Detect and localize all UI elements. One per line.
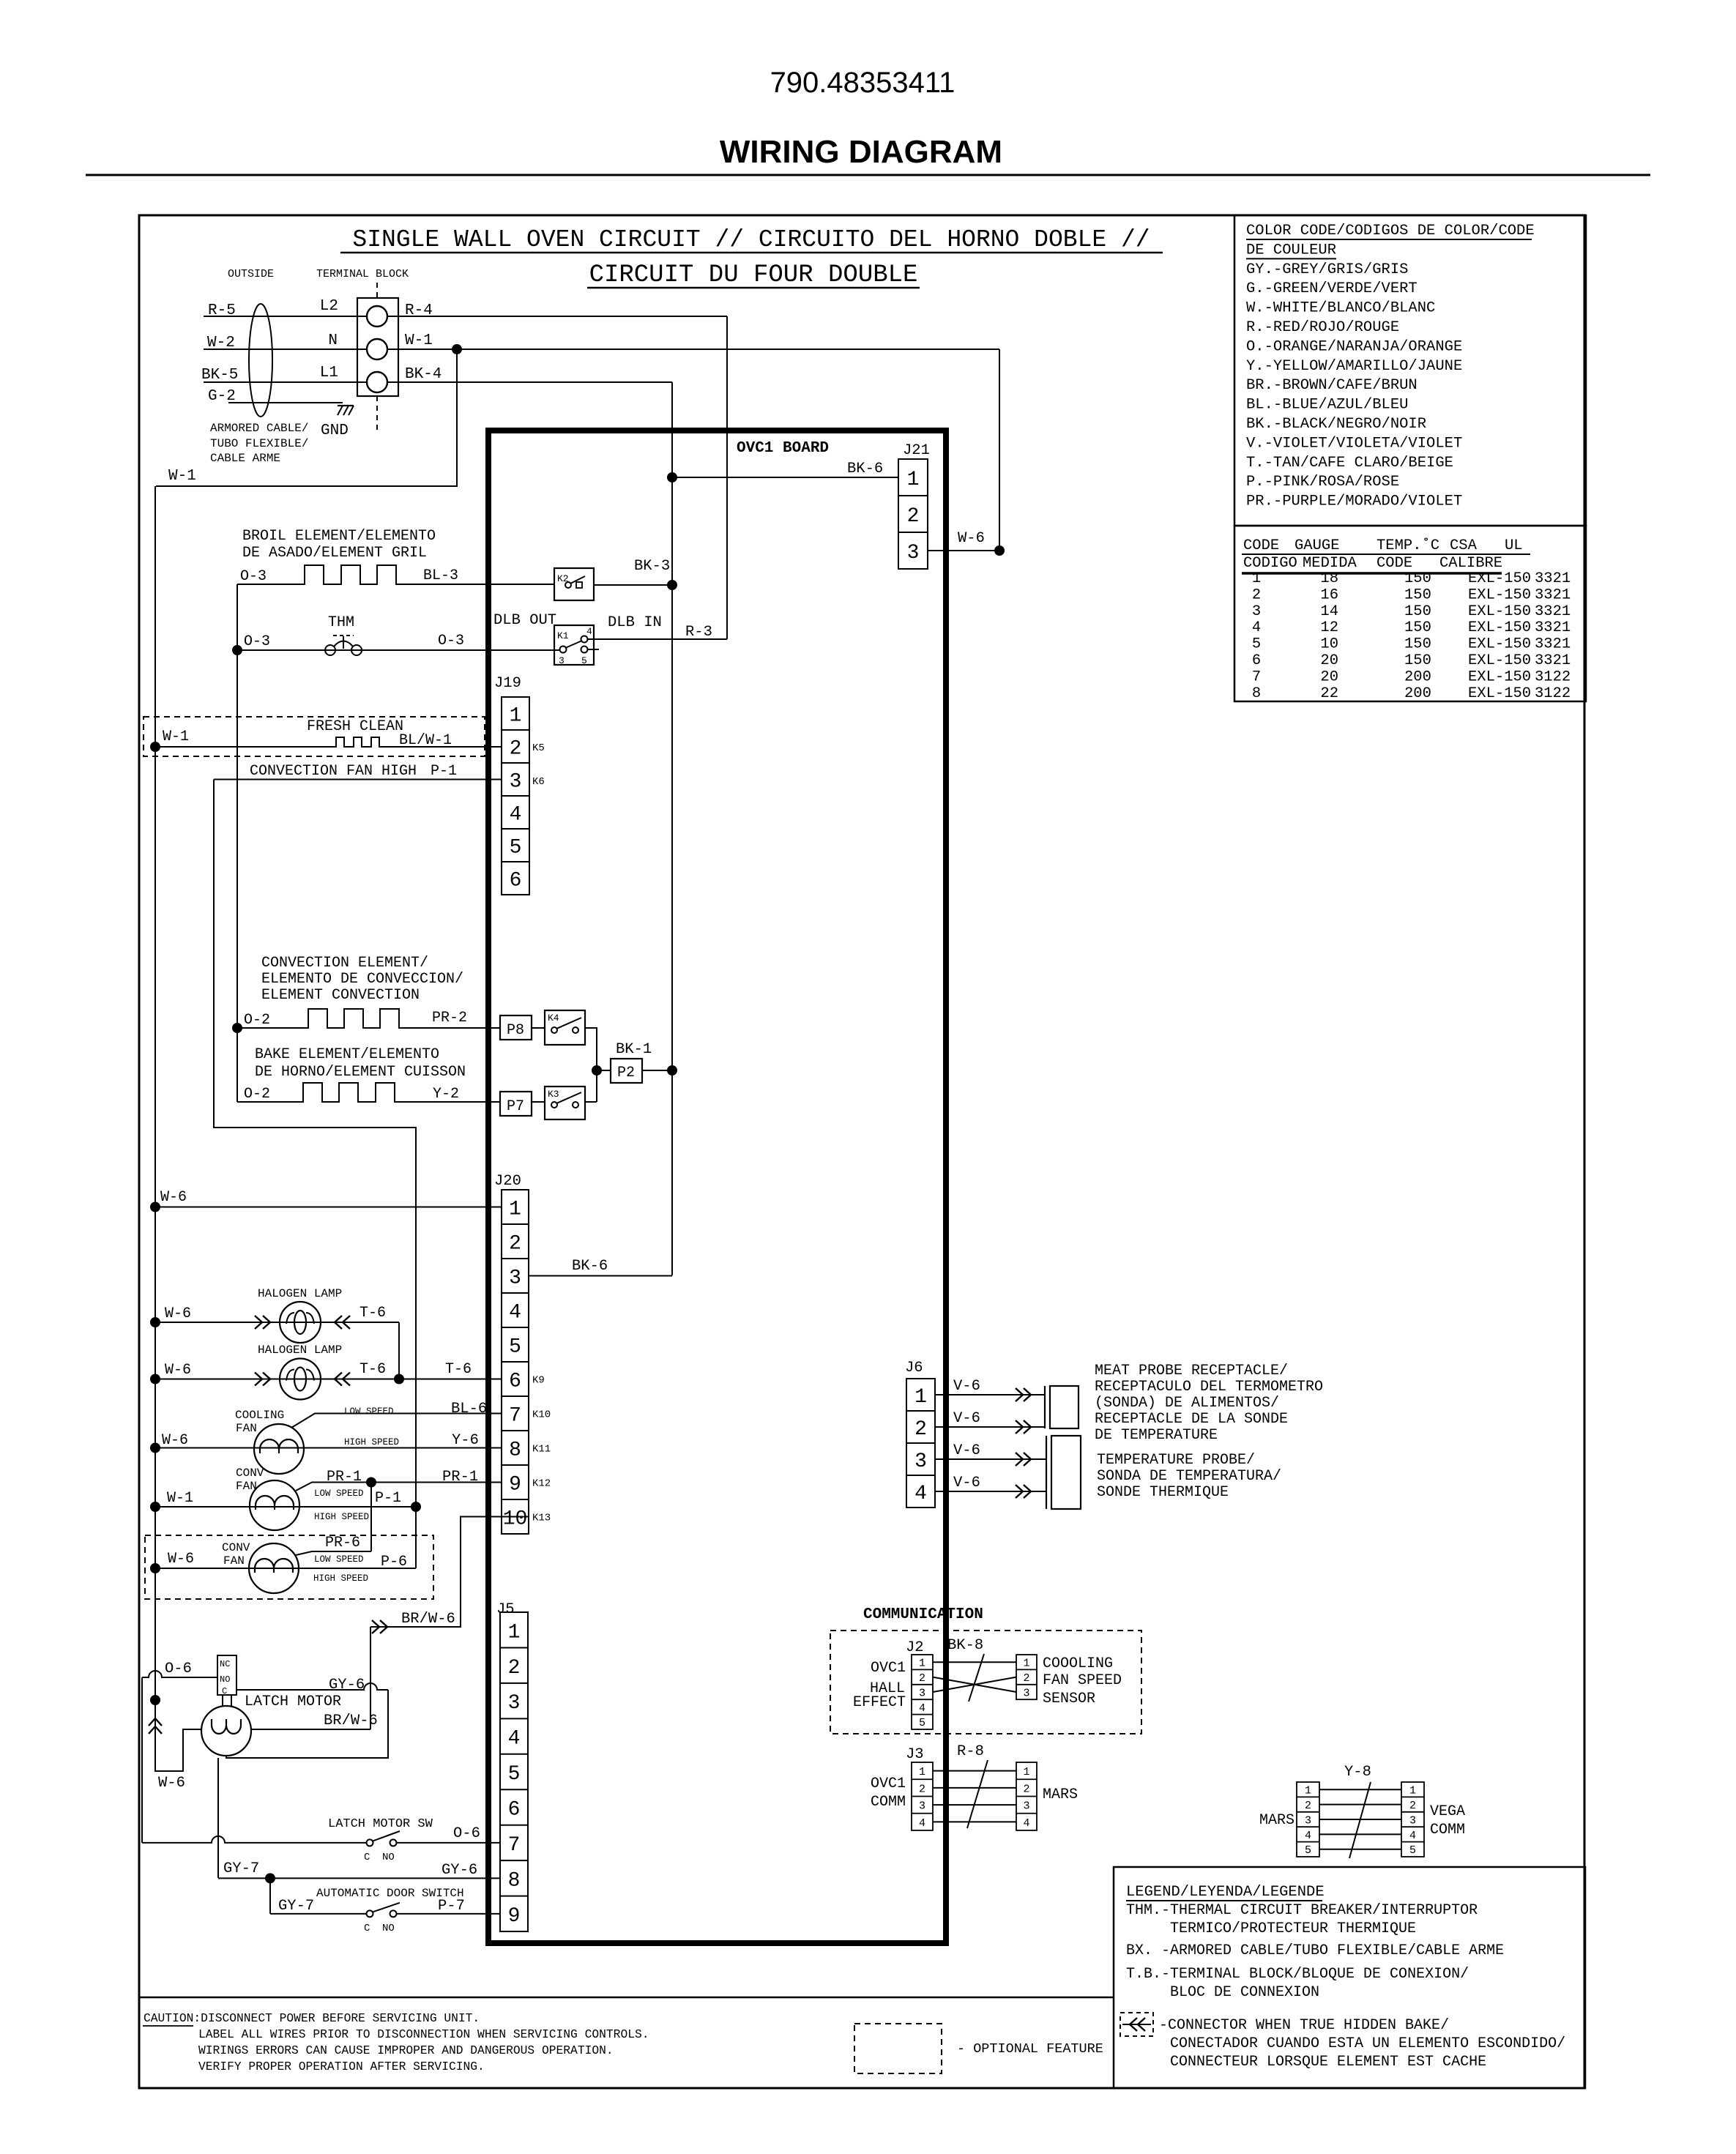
- svg-text:EXL-150: EXL-150: [1468, 685, 1531, 702]
- svg-text:3: 3: [914, 1450, 927, 1473]
- svg-text:EXL-150: EXL-150: [1468, 636, 1531, 653]
- svg-text:18: 18: [1320, 570, 1338, 587]
- svg-text:2: 2: [509, 1233, 521, 1256]
- svg-text:5: 5: [919, 1717, 925, 1729]
- svg-text:22: 22: [1320, 685, 1338, 702]
- svg-text:GY-7: GY-7: [278, 1898, 314, 1915]
- svg-text:2: 2: [508, 1657, 521, 1680]
- svg-text:Y-8: Y-8: [1344, 1764, 1371, 1781]
- svg-text:BL-3: BL-3: [423, 567, 458, 584]
- svg-text:W-6: W-6: [162, 1432, 188, 1449]
- svg-text:OUTSIDE: OUTSIDE: [228, 268, 274, 280]
- svg-text:P-6: P-6: [381, 1554, 407, 1570]
- svg-text:3: 3: [1023, 1800, 1029, 1813]
- svg-text:PR-6: PR-6: [325, 1535, 360, 1551]
- svg-text:9: 9: [508, 1905, 521, 1928]
- svg-text:J6: J6: [905, 1360, 923, 1376]
- svg-text:3122: 3122: [1535, 668, 1571, 685]
- svg-text:W-6: W-6: [165, 1305, 191, 1322]
- svg-text:CSA: CSA: [1450, 537, 1478, 554]
- svg-text:LOW SPEED: LOW SPEED: [314, 1554, 364, 1565]
- svg-text:2: 2: [1409, 1800, 1416, 1812]
- svg-text:GND: GND: [321, 422, 349, 439]
- svg-text:CAUTION:DISCONNECT POWER BEFOR: CAUTION:DISCONNECT POWER BEFORE SERVICIN…: [144, 2011, 480, 2025]
- svg-text:4: 4: [919, 1817, 925, 1830]
- svg-text:(SONDA) DE ALIMENTOS/: (SONDA) DE ALIMENTOS/: [1095, 1395, 1279, 1412]
- svg-text:BL.-BLUE/AZUL/BLEU: BL.-BLUE/AZUL/BLEU: [1246, 397, 1408, 414]
- svg-text:GY-6: GY-6: [442, 1862, 477, 1879]
- svg-text:3321: 3321: [1535, 570, 1571, 587]
- svg-text:FAN: FAN: [223, 1554, 245, 1568]
- svg-text:CABLE ARME: CABLE ARME: [210, 452, 280, 465]
- svg-text:L2: L2: [320, 298, 338, 315]
- svg-text:K3: K3: [548, 1089, 559, 1100]
- svg-text:COMMUNICATION: COMMUNICATION: [863, 1606, 983, 1623]
- svg-text:Y-6: Y-6: [452, 1432, 479, 1449]
- svg-text:V-6: V-6: [953, 1410, 980, 1427]
- svg-text:J5: J5: [496, 1601, 515, 1618]
- svg-text:W-6: W-6: [158, 1775, 185, 1792]
- svg-text:RECEPTACULO DEL TERMOMETRO: RECEPTACULO DEL TERMOMETRO: [1095, 1379, 1323, 1395]
- svg-text:150: 150: [1404, 603, 1431, 620]
- svg-text:3: 3: [559, 655, 565, 666]
- svg-text:BAKE ELEMENT/ELEMENTO: BAKE ELEMENT/ELEMENTO: [255, 1046, 439, 1063]
- svg-text:K1: K1: [557, 630, 569, 641]
- svg-text:CODE: CODE: [1243, 537, 1279, 554]
- svg-text:EXL-150: EXL-150: [1468, 603, 1531, 620]
- svg-text:W-6: W-6: [160, 1189, 187, 1206]
- svg-text:150: 150: [1404, 636, 1431, 653]
- svg-text:DE HORNO/ELEMENT CUISSON: DE HORNO/ELEMENT CUISSON: [255, 1064, 466, 1081]
- svg-text:J21: J21: [903, 442, 930, 459]
- svg-text:8: 8: [1252, 685, 1261, 702]
- svg-text:R-8: R-8: [957, 1743, 984, 1760]
- svg-text:K5: K5: [532, 742, 545, 754]
- svg-text:DE COULEUR: DE COULEUR: [1246, 242, 1336, 258]
- svg-text:BK-4: BK-4: [405, 366, 442, 383]
- svg-text:3: 3: [1023, 1687, 1029, 1699]
- svg-text:3321: 3321: [1535, 636, 1571, 653]
- svg-text:COLOR CODE/CODIGOS DE COLOR/CO: COLOR CODE/CODIGOS DE COLOR/CODE: [1246, 223, 1535, 239]
- svg-text:W-1: W-1: [168, 468, 196, 485]
- svg-text:LOW SPEED: LOW SPEED: [344, 1406, 394, 1417]
- svg-text:3: 3: [1305, 1814, 1311, 1827]
- svg-text:20: 20: [1320, 668, 1338, 685]
- svg-text:LEGEND/LEYENDA/LEGENDE: LEGEND/LEYENDA/LEGENDE: [1126, 1884, 1325, 1901]
- svg-text:L1: L1: [320, 365, 338, 381]
- svg-text:10: 10: [503, 1508, 528, 1531]
- svg-text:C: C: [364, 1852, 370, 1863]
- svg-text:2: 2: [919, 1672, 925, 1685]
- svg-text:N: N: [328, 332, 338, 349]
- svg-text:1: 1: [510, 705, 522, 728]
- svg-text:R-3: R-3: [685, 624, 712, 641]
- svg-text:O-3: O-3: [244, 633, 270, 650]
- svg-text:EXL-150: EXL-150: [1468, 668, 1531, 685]
- svg-text:3: 3: [907, 542, 920, 564]
- svg-text:3321: 3321: [1535, 586, 1571, 603]
- svg-text:W-6: W-6: [165, 1362, 191, 1379]
- svg-text:-CONNECTOR WHEN TRUE HIDDEN BA: -CONNECTOR WHEN TRUE HIDDEN BAKE/: [1159, 2017, 1449, 2034]
- svg-text:C: C: [222, 1686, 227, 1696]
- svg-text:BR.-BROWN/CAFE/BRUN: BR.-BROWN/CAFE/BRUN: [1246, 377, 1418, 394]
- svg-text:BX. -ARMORED CABLE/TUBO FLEXIB: BX. -ARMORED CABLE/TUBO FLEXIBLE/CABLE A…: [1126, 1942, 1504, 1959]
- svg-text:NO: NO: [382, 1852, 395, 1863]
- svg-text:T.B.-TERMINAL BLOCK/BLOQUE DE: T.B.-TERMINAL BLOCK/BLOQUE DE CONEXION/: [1126, 1966, 1469, 1983]
- svg-text:NO: NO: [220, 1674, 230, 1685]
- svg-text:4: 4: [586, 626, 592, 637]
- svg-text:GY-7: GY-7: [223, 1860, 259, 1877]
- svg-text:DE TEMPERATURE: DE TEMPERATURE: [1095, 1427, 1218, 1444]
- svg-text:10: 10: [1320, 636, 1338, 653]
- svg-text:- OPTIONAL FEATURE: - OPTIONAL FEATURE: [957, 2041, 1103, 2057]
- svg-text:O-3: O-3: [438, 633, 464, 649]
- svg-text:2: 2: [1252, 586, 1261, 603]
- svg-text:TEMPERATURE PROBE/: TEMPERATURE PROBE/: [1097, 1452, 1255, 1469]
- svg-text:V-6: V-6: [953, 1378, 980, 1395]
- svg-text:PR.-PURPLE/MORADO/VIOLET: PR.-PURPLE/MORADO/VIOLET: [1246, 493, 1462, 510]
- svg-text:K13: K13: [532, 1513, 551, 1524]
- svg-text:P-1: P-1: [375, 1490, 401, 1507]
- svg-text:COOOLING: COOOLING: [1043, 1655, 1113, 1672]
- svg-text:W.-WHITE/BLANCO/BLANC: W.-WHITE/BLANCO/BLANC: [1246, 300, 1435, 317]
- svg-text:20: 20: [1320, 652, 1338, 669]
- svg-text:HIGH SPEED: HIGH SPEED: [313, 1573, 368, 1584]
- svg-text:OVC1: OVC1: [871, 1775, 906, 1792]
- svg-text:BK.-BLACK/NEGRO/NOIR: BK.-BLACK/NEGRO/NOIR: [1246, 416, 1426, 433]
- svg-text:150: 150: [1404, 652, 1431, 669]
- svg-text:6: 6: [1252, 652, 1261, 669]
- svg-text:C: C: [364, 1923, 370, 1934]
- svg-text:W-1: W-1: [405, 332, 433, 349]
- svg-text:DLB OUT: DLB OUT: [493, 612, 556, 629]
- svg-text:MEDIDA: MEDIDA: [1303, 555, 1357, 572]
- svg-text:5: 5: [1252, 636, 1261, 653]
- svg-text:PR-1: PR-1: [442, 1469, 478, 1486]
- svg-text:4: 4: [1252, 619, 1261, 636]
- svg-text:COMM: COMM: [1430, 1822, 1465, 1838]
- svg-text:CONNECTEUR LORSQUE ELEMENT EST: CONNECTEUR LORSQUE ELEMENT EST CACHE: [1170, 2054, 1486, 2071]
- svg-text:T-6: T-6: [445, 1361, 472, 1378]
- svg-text:K4: K4: [548, 1013, 559, 1024]
- svg-text:4: 4: [914, 1483, 927, 1505]
- svg-text:V-6: V-6: [953, 1442, 980, 1459]
- svg-text:WIRING DIAGRAM: WIRING DIAGRAM: [720, 134, 1002, 170]
- svg-text:ARMORED CABLE/: ARMORED CABLE/: [210, 422, 308, 435]
- svg-text:K12: K12: [532, 1478, 551, 1490]
- svg-text:5: 5: [509, 1336, 521, 1359]
- svg-text:VERIFY PROPER OPERATION AFTER: VERIFY PROPER OPERATION AFTER SERVICING.: [198, 2060, 485, 2073]
- svg-text:CONVECTION ELEMENT/: CONVECTION ELEMENT/: [261, 955, 428, 972]
- svg-text:BK-6: BK-6: [572, 1258, 608, 1275]
- svg-text:5: 5: [581, 655, 587, 666]
- svg-text:WIRINGS ERRORS CAN CAUSE IMPRO: WIRINGS ERRORS CAN CAUSE IMPROPER AND DA…: [198, 2043, 614, 2057]
- svg-text:W-6: W-6: [168, 1551, 194, 1568]
- svg-text:SINGLE WALL OVEN CIRCUIT // CI: SINGLE WALL OVEN CIRCUIT // CIRCUITO DEL…: [352, 226, 1150, 253]
- svg-text:FRESH CLEAN: FRESH CLEAN: [307, 718, 403, 735]
- svg-text:1: 1: [1305, 1785, 1311, 1797]
- svg-text:1: 1: [508, 1621, 521, 1644]
- svg-text:HIGH SPEED: HIGH SPEED: [314, 1512, 369, 1522]
- svg-text:2: 2: [1305, 1800, 1311, 1812]
- svg-text:RECEPTACLE DE LA SONDE: RECEPTACLE DE LA SONDE: [1095, 1411, 1288, 1428]
- svg-text:T-6: T-6: [360, 1361, 386, 1378]
- svg-text:2: 2: [919, 1783, 925, 1795]
- svg-text:8: 8: [508, 1869, 521, 1892]
- svg-text:GY.-GREY/GRIS/GRIS: GY.-GREY/GRIS/GRIS: [1246, 261, 1408, 278]
- svg-text:BR/W-6: BR/W-6: [401, 1611, 455, 1628]
- svg-text:K10: K10: [532, 1409, 551, 1421]
- svg-text:TERMICO/PROTECTEUR THERMIQUE: TERMICO/PROTECTEUR THERMIQUE: [1170, 1920, 1416, 1937]
- svg-text:OVC1 BOARD: OVC1 BOARD: [737, 440, 829, 457]
- svg-text:14: 14: [1320, 603, 1338, 620]
- svg-text:CODE: CODE: [1376, 555, 1412, 572]
- svg-text:8: 8: [509, 1439, 521, 1462]
- svg-text:BK-6: BK-6: [847, 461, 883, 477]
- svg-text:CIRCUIT DU FOUR DOUBLE: CIRCUIT DU FOUR DOUBLE: [589, 261, 918, 289]
- svg-text:6: 6: [508, 1799, 521, 1822]
- svg-text:BR/W-6: BR/W-6: [324, 1713, 378, 1729]
- svg-text:G.-GREEN/VERDE/VERT: G.-GREEN/VERDE/VERT: [1246, 280, 1418, 297]
- svg-text:1: 1: [1409, 1785, 1416, 1797]
- svg-text:6: 6: [509, 1371, 521, 1393]
- svg-text:3321: 3321: [1535, 603, 1571, 620]
- svg-text:2: 2: [1023, 1783, 1029, 1795]
- svg-text:V-6: V-6: [953, 1475, 980, 1491]
- svg-text:P-1: P-1: [431, 763, 457, 780]
- svg-text:CONVECTION FAN HIGH: CONVECTION FAN HIGH: [250, 763, 417, 780]
- svg-text:7: 7: [508, 1834, 521, 1857]
- svg-text:MARS: MARS: [1043, 1786, 1078, 1803]
- svg-text:THM: THM: [328, 614, 354, 631]
- svg-text:3: 3: [919, 1687, 925, 1699]
- svg-text:1: 1: [1023, 1658, 1029, 1670]
- svg-text:TUBO FLEXIBLE/: TUBO FLEXIBLE/: [210, 437, 308, 450]
- svg-text:THM.-THERMAL CIRCUIT BREAKER/I: THM.-THERMAL CIRCUIT BREAKER/INTERRUPTOR: [1126, 1902, 1478, 1919]
- svg-text:ELEMENT CONVECTION: ELEMENT CONVECTION: [261, 987, 420, 1004]
- svg-text:1: 1: [919, 1766, 925, 1778]
- svg-text:5: 5: [510, 837, 522, 860]
- svg-text:1: 1: [1023, 1766, 1029, 1778]
- svg-text:P2: P2: [617, 1065, 635, 1081]
- svg-text:3: 3: [1252, 603, 1261, 620]
- svg-text:J20: J20: [494, 1173, 521, 1190]
- svg-text:BL-6: BL-6: [451, 1401, 487, 1417]
- svg-text:LATCH MOTOR SW: LATCH MOTOR SW: [328, 1817, 433, 1831]
- svg-text:HALOGEN LAMP: HALOGEN LAMP: [258, 1344, 342, 1357]
- svg-text:V.-VIOLET/VIOLETA/VIOLET: V.-VIOLET/VIOLETA/VIOLET: [1246, 435, 1462, 452]
- svg-text:3321: 3321: [1535, 652, 1571, 669]
- svg-text:LOW SPEED: LOW SPEED: [314, 1488, 364, 1499]
- svg-text:CALIBRE: CALIBRE: [1439, 555, 1502, 572]
- svg-text:MEAT PROBE RECEPTACLE/: MEAT PROBE RECEPTACLE/: [1095, 1363, 1288, 1379]
- svg-text:DE ASADO/ELEMENT GRIL: DE ASADO/ELEMENT GRIL: [242, 545, 427, 562]
- svg-text:W-1: W-1: [163, 728, 189, 745]
- svg-text:SONDA DE TEMPERATURA/: SONDA DE TEMPERATURA/: [1097, 1468, 1281, 1485]
- svg-text:O-6: O-6: [453, 1825, 480, 1842]
- svg-text:3: 3: [1409, 1814, 1416, 1827]
- svg-text:5: 5: [508, 1763, 521, 1786]
- svg-text:200: 200: [1404, 668, 1431, 685]
- svg-text:LATCH MOTOR: LATCH MOTOR: [245, 1693, 341, 1710]
- svg-text:150: 150: [1404, 570, 1431, 587]
- svg-text:O-2: O-2: [244, 1086, 270, 1103]
- svg-text:2: 2: [907, 505, 920, 528]
- svg-text:MARS: MARS: [1259, 1812, 1294, 1829]
- svg-text:BK-8: BK-8: [947, 1637, 983, 1654]
- svg-text:BK-1: BK-1: [616, 1041, 652, 1058]
- svg-text:HIGH SPEED: HIGH SPEED: [344, 1437, 399, 1447]
- svg-text:5: 5: [1305, 1844, 1311, 1857]
- svg-text:BK-3: BK-3: [634, 558, 670, 575]
- svg-text:COOLING: COOLING: [235, 1409, 284, 1422]
- svg-text:3: 3: [919, 1800, 925, 1813]
- svg-text:CONECTADOR CUANDO ESTA UN ELEM: CONECTADOR CUANDO ESTA UN ELEMENTO ESCON…: [1170, 2035, 1565, 2052]
- svg-text:FAN: FAN: [236, 1422, 257, 1435]
- svg-text:GAUGE: GAUGE: [1294, 537, 1340, 554]
- svg-text:NO: NO: [382, 1923, 395, 1934]
- svg-text:4: 4: [1305, 1830, 1311, 1842]
- svg-text:T.-TAN/CAFE CLARO/BEIGE: T.-TAN/CAFE CLARO/BEIGE: [1246, 455, 1453, 472]
- svg-text:HALOGEN LAMP: HALOGEN LAMP: [258, 1287, 342, 1300]
- svg-text:EXL-150: EXL-150: [1468, 619, 1531, 636]
- svg-text:O-3: O-3: [240, 568, 267, 585]
- svg-text:6: 6: [510, 870, 522, 892]
- svg-text:P.-PINK/ROSA/ROSE: P.-PINK/ROSA/ROSE: [1246, 474, 1399, 491]
- svg-text:150: 150: [1404, 619, 1431, 636]
- svg-text:200: 200: [1404, 685, 1431, 702]
- svg-text:P-7: P-7: [438, 1898, 465, 1915]
- svg-text:1: 1: [907, 469, 920, 491]
- svg-text:4: 4: [1023, 1817, 1029, 1830]
- svg-text:Y-2: Y-2: [433, 1086, 459, 1103]
- svg-text:J2: J2: [906, 1639, 924, 1656]
- svg-text:4: 4: [510, 804, 522, 827]
- svg-text:4: 4: [508, 1728, 521, 1751]
- svg-text:BROIL ELEMENT/ELEMENTO: BROIL ELEMENT/ELEMENTO: [242, 528, 436, 545]
- svg-text:1: 1: [914, 1386, 927, 1409]
- svg-text:16: 16: [1320, 586, 1338, 603]
- svg-text:7: 7: [509, 1405, 521, 1428]
- svg-text:PR-1: PR-1: [327, 1469, 362, 1486]
- svg-text:7: 7: [1252, 668, 1261, 685]
- svg-text:CONV: CONV: [236, 1467, 264, 1480]
- svg-text:O.-ORANGE/NARANJA/ORANGE: O.-ORANGE/NARANJA/ORANGE: [1246, 338, 1462, 355]
- svg-text:3: 3: [510, 771, 522, 794]
- svg-text:NC: NC: [220, 1659, 230, 1669]
- svg-text:W-1: W-1: [167, 1490, 193, 1507]
- svg-text:2: 2: [1023, 1672, 1029, 1685]
- svg-text:3: 3: [508, 1692, 521, 1715]
- svg-text:LABEL ALL WIRES PRIOR TO DISCO: LABEL ALL WIRES PRIOR TO DISCONNECTION W…: [198, 2027, 649, 2041]
- svg-text:FAN SPEED: FAN SPEED: [1043, 1672, 1122, 1689]
- svg-text:2: 2: [914, 1418, 927, 1441]
- svg-text:EXL-150: EXL-150: [1468, 652, 1531, 669]
- svg-text:P7: P7: [507, 1098, 524, 1115]
- svg-text:CONV: CONV: [222, 1541, 250, 1554]
- svg-text:K9: K9: [532, 1375, 545, 1387]
- svg-text:1: 1: [1252, 570, 1261, 587]
- svg-text:EXL-150: EXL-150: [1468, 570, 1531, 587]
- svg-text:UL: UL: [1505, 537, 1523, 554]
- svg-text:W-6: W-6: [958, 530, 985, 547]
- svg-text:12: 12: [1320, 619, 1338, 636]
- svg-text:EXL-150: EXL-150: [1468, 586, 1531, 603]
- svg-text:TEMP.˚C: TEMP.˚C: [1376, 537, 1439, 554]
- svg-text:150: 150: [1404, 586, 1431, 603]
- svg-text:TERMINAL BLOCK: TERMINAL BLOCK: [316, 268, 409, 280]
- svg-text:ELEMENTO DE CONVECCION/: ELEMENTO DE CONVECCION/: [261, 971, 463, 988]
- svg-text:4: 4: [1409, 1830, 1416, 1842]
- svg-text:BLOC DE CONNEXION: BLOC DE CONNEXION: [1170, 1984, 1319, 2001]
- svg-text:BK-5: BK-5: [201, 367, 238, 384]
- svg-text:K6: K6: [532, 776, 545, 788]
- svg-text:CODIGO: CODIGO: [1243, 555, 1297, 572]
- svg-text:O-6: O-6: [165, 1661, 192, 1677]
- svg-text:3: 3: [509, 1267, 521, 1290]
- svg-text:4: 4: [509, 1302, 521, 1324]
- svg-text:DLB IN: DLB IN: [608, 614, 662, 631]
- svg-text:1: 1: [919, 1658, 925, 1670]
- svg-text:COMM: COMM: [871, 1794, 906, 1811]
- svg-text:3122: 3122: [1535, 685, 1571, 702]
- svg-text:O-2: O-2: [244, 1012, 270, 1029]
- svg-text:2: 2: [510, 738, 522, 761]
- svg-text:SONDE THERMIQUE: SONDE THERMIQUE: [1097, 1484, 1229, 1501]
- svg-text:5: 5: [1409, 1844, 1416, 1857]
- svg-text:4: 4: [919, 1702, 925, 1715]
- svg-text:GY-6: GY-6: [329, 1677, 365, 1693]
- svg-text:VEGA: VEGA: [1430, 1803, 1465, 1820]
- svg-text:OVC1: OVC1: [871, 1660, 906, 1677]
- svg-text:K11: K11: [532, 1444, 551, 1456]
- svg-text:J3: J3: [906, 1746, 924, 1763]
- svg-text:T-6: T-6: [360, 1305, 386, 1322]
- svg-text:R.-RED/ROJO/ROUGE: R.-RED/ROJO/ROUGE: [1246, 319, 1399, 336]
- svg-text:3321: 3321: [1535, 619, 1571, 636]
- svg-text:J19: J19: [494, 675, 521, 692]
- svg-text:9: 9: [509, 1474, 521, 1497]
- svg-text:PR-2: PR-2: [432, 1010, 467, 1026]
- svg-text:SENSOR: SENSOR: [1043, 1691, 1095, 1707]
- svg-text:790.48353411: 790.48353411: [770, 67, 955, 99]
- svg-text:1: 1: [509, 1199, 521, 1221]
- svg-text:EFFECT: EFFECT: [853, 1694, 906, 1711]
- svg-text:P8: P8: [507, 1022, 524, 1039]
- svg-text:Y.-YELLOW/AMARILLO/JAUNE: Y.-YELLOW/AMARILLO/JAUNE: [1246, 358, 1462, 375]
